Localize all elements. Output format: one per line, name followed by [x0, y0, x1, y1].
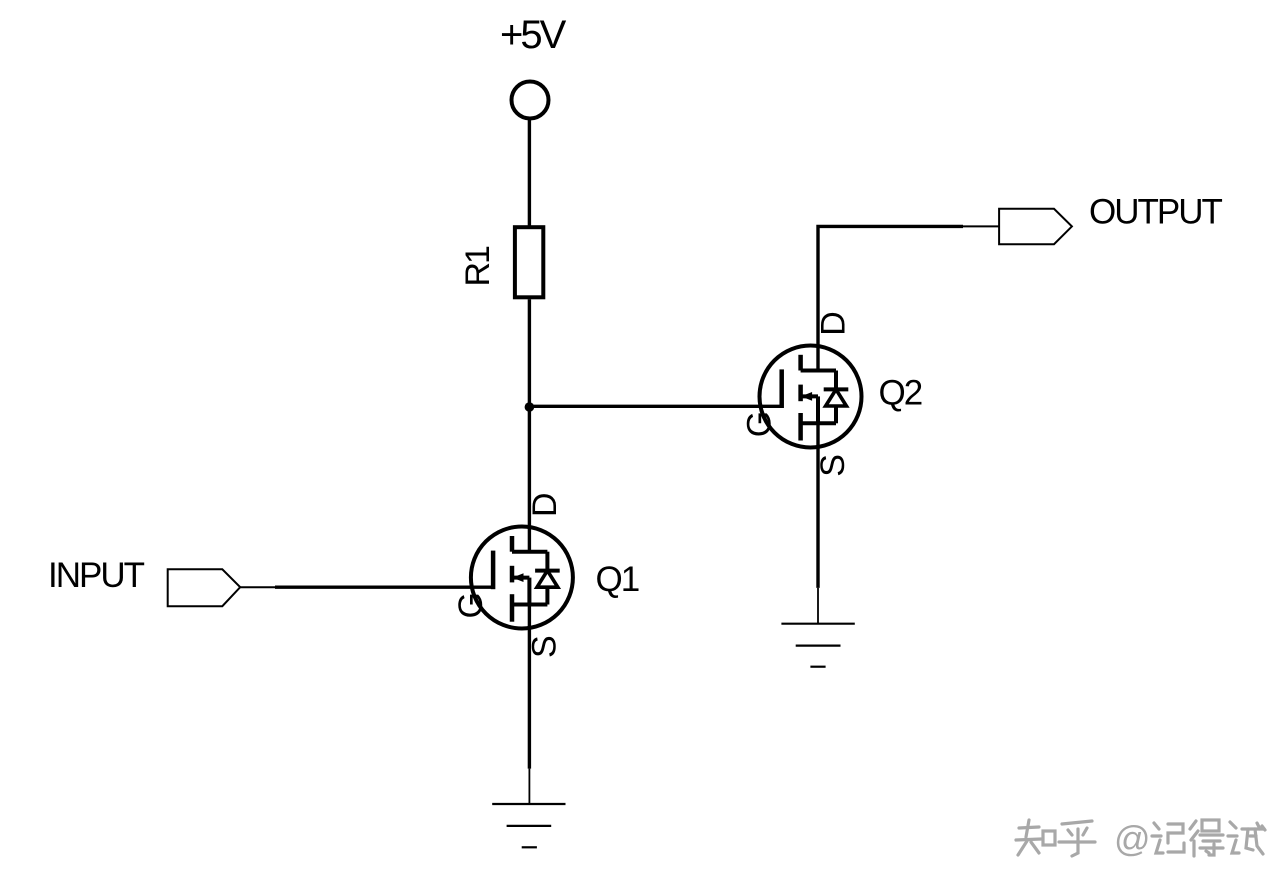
svg-text:Q2: Q2 — [879, 374, 922, 413]
Q1 body circle — [471, 527, 573, 629]
wire Q2 drain to OUTPUT corner — [818, 226, 963, 370]
OUTPUT tag — [999, 209, 1072, 244]
Q2 body circle — [760, 346, 862, 448]
ground GND2 — [781, 588, 854, 667]
svg-text:Q1: Q1 — [596, 560, 639, 599]
watermark char 记 — [1152, 823, 1184, 853]
INPUT tag lead — [240, 586, 275, 588]
watermark char 诚 — [1228, 822, 1265, 854]
wire node to Q2 gate — [529, 405, 781, 408]
Q2 drain connect — [801, 369, 836, 373]
Q1 drain connect — [512, 550, 547, 554]
Q2 body diode — [834, 371, 838, 390]
svg-text:G: G — [741, 411, 779, 437]
svg-text:@: @ — [1114, 818, 1151, 859]
watermark char 乎 — [1059, 821, 1095, 856]
wire R1 to Q1 drain — [528, 299, 531, 551]
svg-text:G: G — [452, 592, 490, 618]
watermark 知乎 @记得诚 — [1016, 818, 1265, 859]
node junction dot — [525, 402, 535, 412]
svg-text:D: D — [815, 311, 853, 336]
svg-text:S: S — [814, 454, 852, 477]
wire INPUT to Q1 gate — [275, 586, 493, 589]
wire +5V to R1 — [528, 118, 531, 227]
svg-text:D: D — [526, 492, 564, 517]
Q1 body connect with arrow — [512, 576, 529, 580]
Q1 body diode — [545, 552, 549, 571]
INPUT tag — [168, 569, 241, 606]
Q2 body connect with arrow — [801, 394, 818, 398]
Q2 channel dashes — [798, 355, 803, 371]
Q1 gate bar — [491, 551, 496, 590]
svg-text:R1: R1 — [459, 246, 497, 287]
wire Q2 source to ground — [816, 423, 819, 588]
wire Q1 source to ground — [528, 605, 531, 769]
watermark char 得 — [1190, 820, 1223, 856]
watermark char 知 — [1016, 820, 1055, 855]
ground GND1 — [492, 769, 565, 848]
svg-text:INPUT: INPUT — [48, 556, 145, 595]
Q2 gate bar — [779, 369, 784, 408]
transistor Q1 — [452, 492, 639, 658]
svg-text:OUTPUT: OUTPUT — [1089, 193, 1223, 232]
OUTPUT tag lead — [963, 225, 999, 227]
svg-text:S: S — [526, 635, 564, 658]
resistor R1 body — [515, 227, 543, 297]
transistor Q2 — [741, 311, 922, 477]
power symbol +5V circle — [512, 82, 549, 119]
svg-text:+5V: +5V — [500, 13, 567, 57]
Q1 channel dashes — [510, 536, 515, 552]
Q2 source connect — [801, 421, 836, 425]
Q1 source connect — [512, 603, 547, 607]
